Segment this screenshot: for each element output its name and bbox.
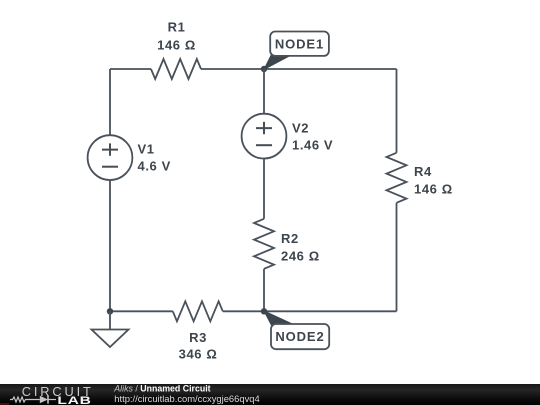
- wire bottom middle (R3 to node B): [223, 310, 264, 312]
- NODE2 label callout: [264, 311, 329, 349]
- svg-text:1.46 V: 1.46 V: [292, 138, 333, 153]
- svg-text:http://circuitlab.com/ccxygje6: http://circuitlab.com/ccxygje66qvq4: [114, 393, 259, 404]
- svg-text:346 Ω: 346 Ω: [179, 347, 218, 362]
- svg-text:4.6 V: 4.6 V: [138, 159, 171, 174]
- svg-text:246 Ω: 246 Ω: [281, 248, 320, 263]
- svg-text:NODE2: NODE2: [275, 329, 324, 344]
- svg-text:146 Ω: 146 Ω: [414, 181, 453, 196]
- junction dot ground node: [107, 308, 113, 314]
- ground: [92, 311, 129, 347]
- svg-text:NODE1: NODE1: [275, 36, 324, 51]
- wire left lower (V1 to bottom corner): [109, 180, 111, 311]
- wire middle (V2 to R2): [263, 159, 265, 219]
- footer bar: [0, 384, 540, 405]
- CircuitLab logo diode: [40, 396, 48, 404]
- wire top segment R1 to node A: [201, 68, 264, 70]
- resistor R1: [151, 20, 201, 79]
- svg-text:V2: V2: [292, 121, 309, 136]
- NODE1 label callout: [264, 32, 329, 70]
- svg-text:146 Ω: 146 Ω: [157, 37, 196, 52]
- node B junction dot (NODE2): [261, 308, 267, 314]
- resistor R3: [173, 301, 223, 361]
- svg-text:R2: R2: [281, 231, 299, 246]
- wire top segment left (corner to R1): [110, 68, 151, 70]
- svg-text:R1: R1: [168, 20, 186, 35]
- svg-text:R4: R4: [414, 164, 432, 179]
- wire right lower (R4 to bottom corner): [396, 203, 398, 311]
- wire left upper (corner to V1): [109, 69, 111, 135]
- wire bottom right (node B to bottom-right corner): [264, 310, 397, 312]
- footer red accent: [0, 403, 9, 405]
- svg-text:R3: R3: [189, 330, 207, 345]
- svg-text:V1: V1: [138, 141, 155, 156]
- wire middle lower (R2 to node B): [263, 269, 265, 312]
- wire top segment node A to top-right corner: [264, 68, 397, 70]
- resistor R2: [254, 219, 320, 269]
- wire middle upper (node A to V2): [263, 69, 265, 114]
- node A junction dot (NODE1): [261, 66, 267, 72]
- wire bottom left (ground node to R3): [110, 310, 173, 312]
- wire right upper (corner to R4): [396, 69, 398, 153]
- svg-text:LAB: LAB: [57, 394, 91, 405]
- svg-text:Aliks / Unnamed Circuit: Aliks / Unnamed Circuit: [113, 384, 210, 394]
- voltage source V1: [88, 135, 171, 180]
- CircuitLab logo resistor-diode line: [10, 397, 40, 402]
- voltage source V2: [242, 114, 334, 159]
- resistor R4: [387, 153, 453, 203]
